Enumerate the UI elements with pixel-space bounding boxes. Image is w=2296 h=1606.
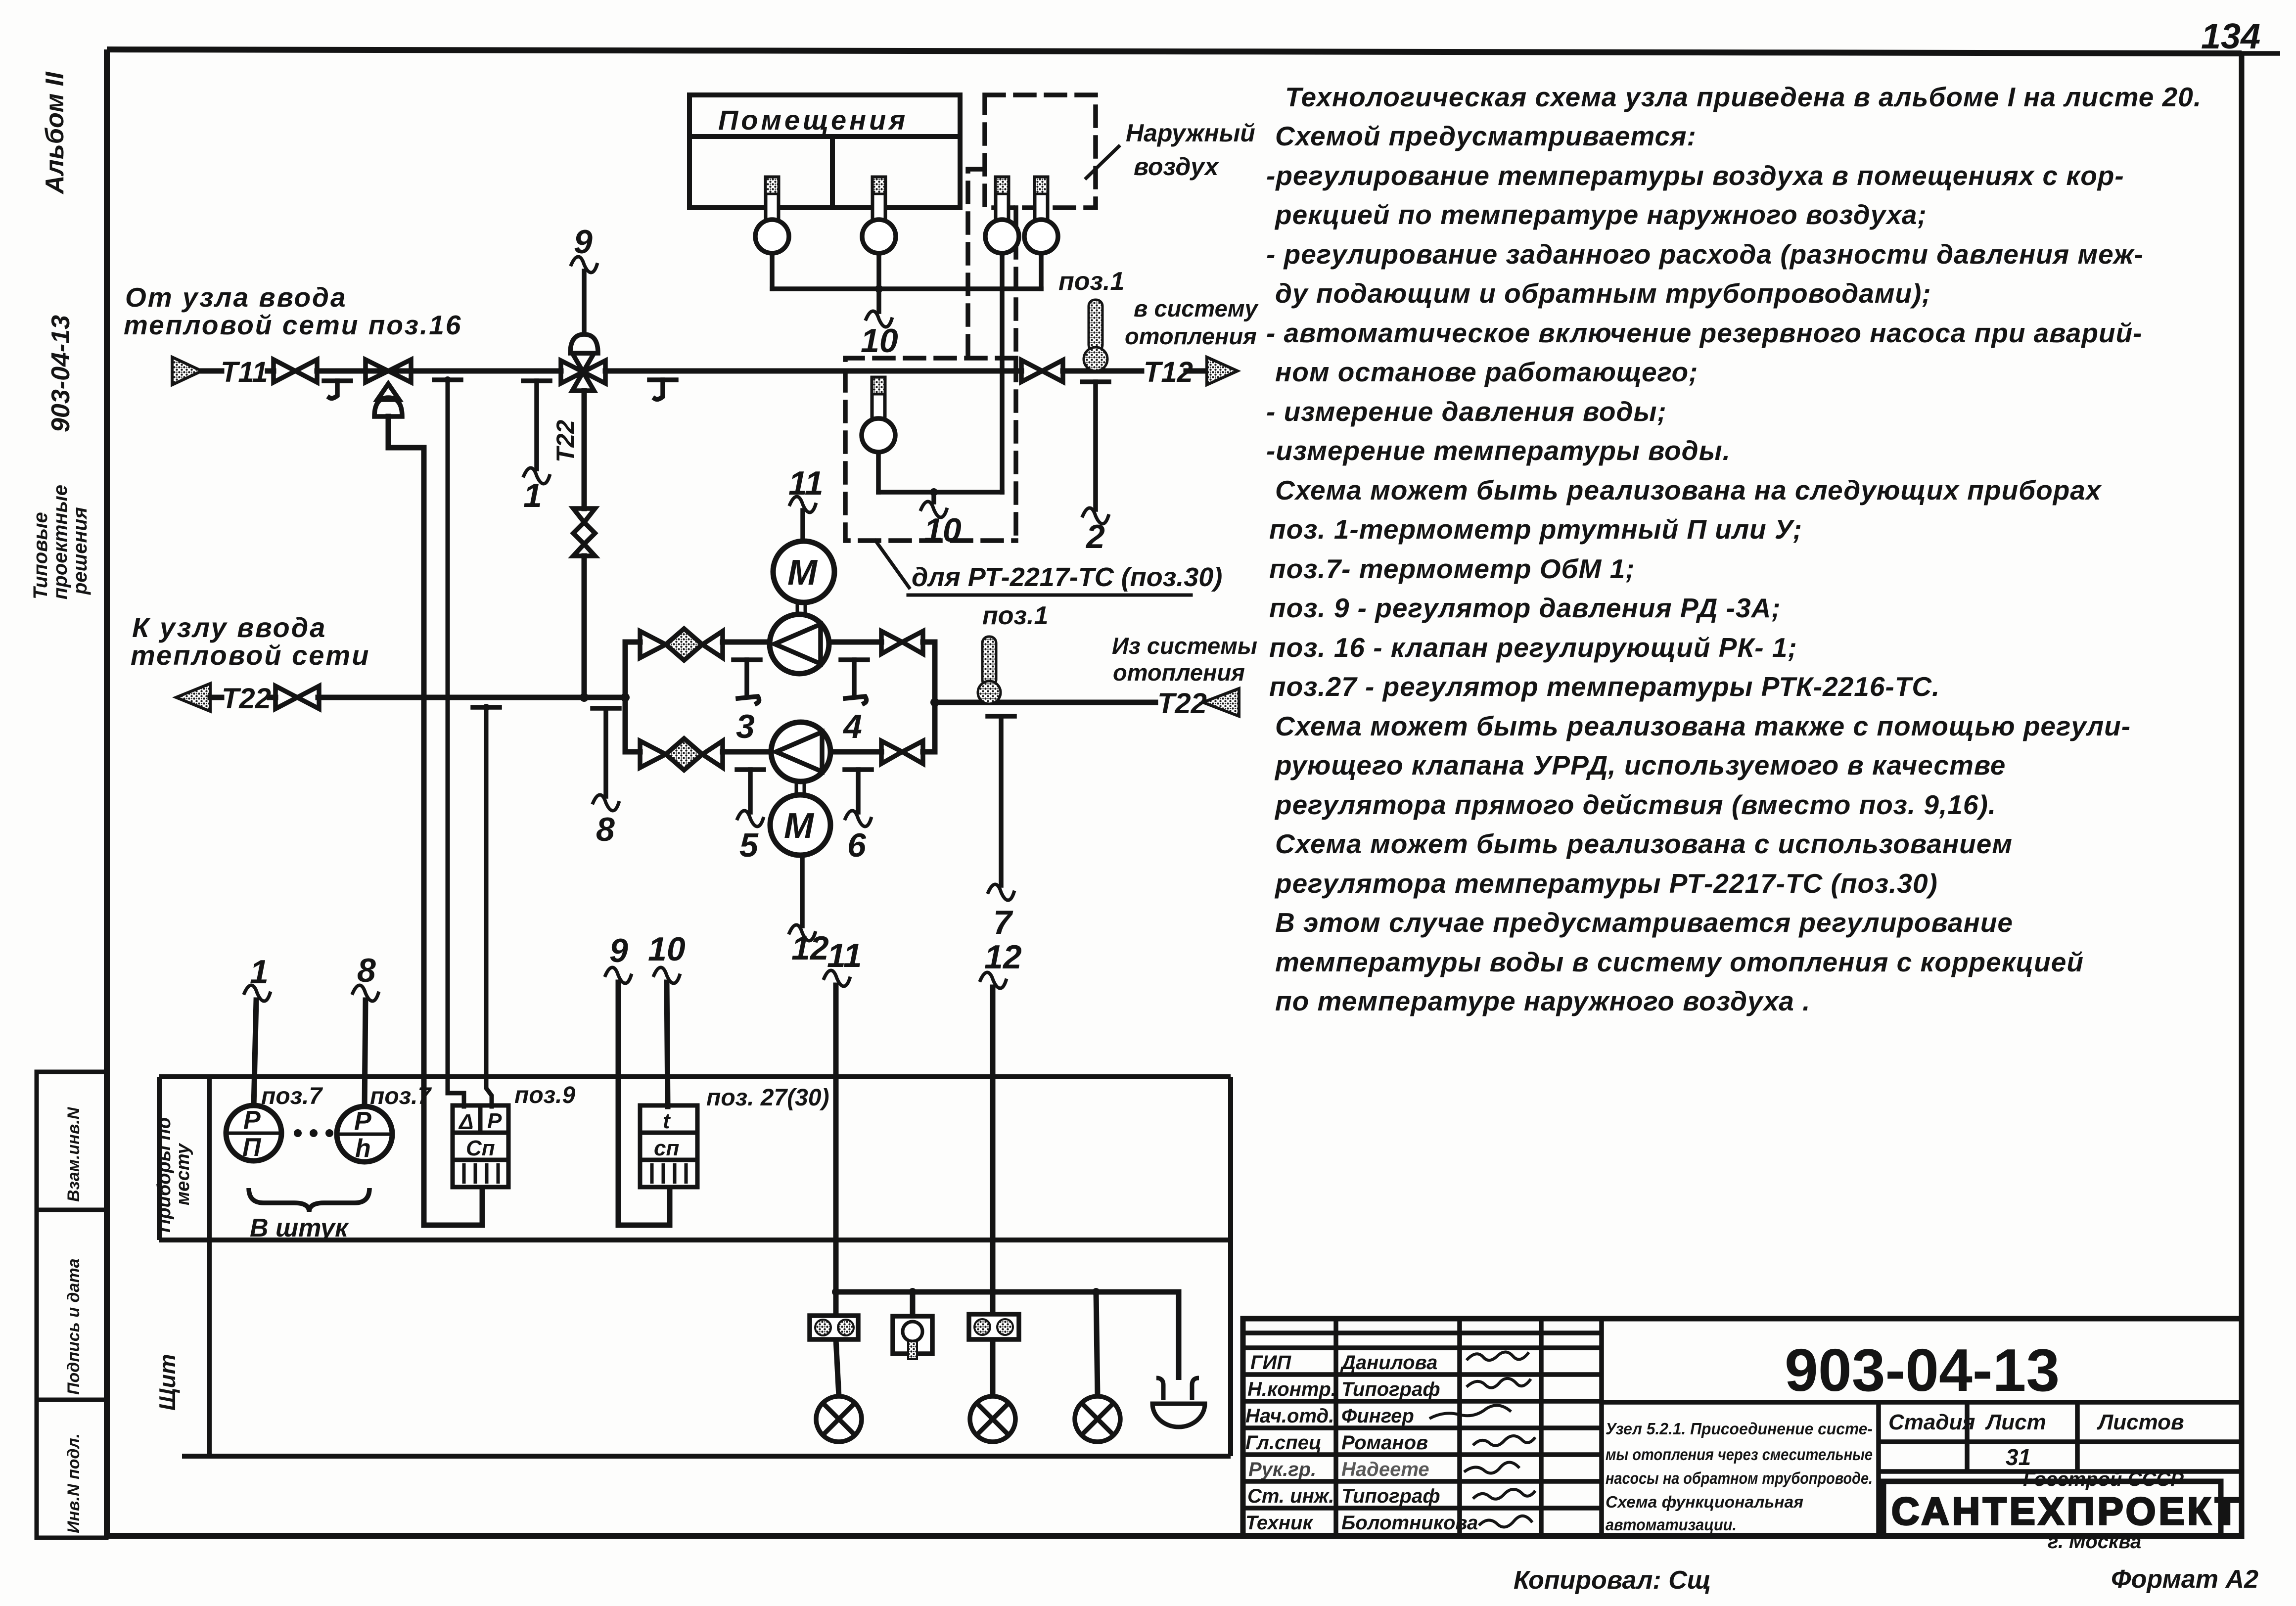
svg-text:Схема может быть реализована: Схема может быть реализована также с пом… bbox=[1275, 711, 2131, 741]
svg-text:отопления: отопления bbox=[1125, 323, 1257, 349]
svg-text:температуры воды в систему: температуры воды в систему отопления с к… bbox=[1275, 947, 2084, 977]
svg-text:4: 4 bbox=[842, 708, 862, 745]
svg-text:- измерение давления воды;: - измерение давления воды; bbox=[1266, 396, 1667, 427]
valve gate lower branch bbox=[881, 741, 923, 764]
svg-text:ном останове работающего;: ном останове работающего; bbox=[1275, 357, 1698, 387]
wire to lamp 11 bbox=[836, 1339, 839, 1396]
wire impulse 4 tap bbox=[841, 660, 868, 703]
svg-text:3: 3 bbox=[736, 708, 755, 745]
wire T11 main line bbox=[202, 368, 1207, 374]
wire impulse 11 from M1 bbox=[800, 510, 805, 541]
wire Т22 main left bbox=[210, 695, 625, 700]
svg-text:поз.27 - регулятор температ: поз.27 - регулятор температуры РТК-2216-… bbox=[1269, 671, 1940, 702]
wire upper branch bbox=[625, 640, 935, 645]
svg-text:Болотникова: Болотникова bbox=[1341, 1512, 1478, 1534]
svg-text:12: 12 bbox=[984, 938, 1022, 976]
svg-text:Р: Р bbox=[354, 1107, 371, 1136]
wire shaft M2-P2 bbox=[796, 781, 804, 795]
sensor thermometer РТ duct bbox=[862, 377, 895, 452]
wire impulse line 2 bbox=[1082, 382, 1109, 509]
socket symbol bbox=[1152, 1378, 1205, 1427]
svg-text:8: 8 bbox=[596, 811, 615, 848]
wire outdoor sensor down bbox=[878, 253, 1002, 502]
svg-text:Типограф: Типограф bbox=[1341, 1378, 1440, 1400]
staff rows bbox=[1245, 1352, 1478, 1534]
valve РК-1 cross regulating valve (поз.16) bbox=[561, 334, 605, 391]
svg-text:-регулирование температуры в: -регулирование температуры воздуха в пом… bbox=[1266, 160, 2124, 191]
svg-text:Н.контр.: Н.контр. bbox=[1247, 1378, 1336, 1400]
svg-text:Гл.спец: Гл.спец bbox=[1245, 1432, 1322, 1454]
wire impulse 5 tap bbox=[737, 770, 764, 812]
label Приборы по месту bbox=[154, 1117, 193, 1233]
sensor thermometer 4 outdoor bbox=[1024, 177, 1058, 253]
svg-text:- регулирование заданного ра: - регулирование заданного расхода (разно… bbox=[1266, 239, 2144, 270]
svg-text:От узла ввода: От узла ввода bbox=[125, 282, 347, 313]
svg-text:г. Москва: г. Москва bbox=[2048, 1531, 2141, 1553]
svg-text:Узел 5.2.1. Присоединение сист: Узел 5.2.1. Присоединение систе- bbox=[1606, 1420, 1873, 1438]
valve 3-way regulating with actuator (поз.9 valve) bbox=[366, 360, 411, 416]
valve gate T11 bbox=[274, 360, 317, 382]
wire to lamp 3 bbox=[1096, 1292, 1098, 1396]
org box bbox=[1883, 1481, 2221, 1536]
svg-text:6: 6 bbox=[847, 826, 867, 864]
wire impulse line 1 bbox=[523, 381, 550, 469]
svg-text:поз.1: поз.1 bbox=[982, 601, 1048, 630]
svg-text:Т12: Т12 bbox=[1144, 356, 1193, 388]
motor M2 bbox=[770, 795, 830, 855]
svg-text:Сп: Сп bbox=[466, 1136, 495, 1160]
svg-text:10: 10 bbox=[648, 930, 686, 968]
svg-text:поз. 27(30): поз. 27(30) bbox=[706, 1085, 829, 1111]
svg-text:t: t bbox=[663, 1109, 671, 1133]
node T12 outlet arrow bbox=[1207, 357, 1238, 385]
svg-text:Схема может быть реализован: Схема может быть реализована на следующи… bbox=[1275, 475, 2102, 505]
svg-text:К узлу ввода: К узлу ввода bbox=[132, 612, 326, 643]
svg-text:Инв.N подл.: Инв.N подл. bbox=[64, 1433, 83, 1533]
svg-text:Δ: Δ bbox=[458, 1110, 474, 1134]
svg-text:Госстрой СССР: Госстрой СССР bbox=[2023, 1468, 2184, 1490]
valve strainer combo lower bbox=[640, 738, 723, 770]
svg-text:- автоматическое включение р: - автоматическое включение резервного на… bbox=[1266, 318, 2143, 348]
svg-text:воздух: воздух bbox=[1134, 153, 1220, 181]
sensor thermometer 2 in Помещения bbox=[862, 177, 896, 253]
node T11 inlet arrow bbox=[172, 357, 202, 385]
node T22 inlet arrow bbox=[176, 684, 210, 711]
wire impulse 7 tap bbox=[988, 716, 1014, 885]
title block frame bbox=[1243, 1319, 2242, 1536]
wire riser РК-1 to Т22 bbox=[582, 391, 587, 697]
svg-text:Т11: Т11 bbox=[221, 356, 268, 388]
svg-text:Формат А2: Формат А2 bbox=[2111, 1565, 2258, 1594]
svg-text:Романов: Романов bbox=[1341, 1432, 1428, 1454]
instrument manometer поз.7 second bbox=[337, 1106, 392, 1163]
lamp 11 bbox=[816, 1396, 862, 1442]
svg-text:поз.7- термометр ОбМ 1;: поз.7- термометр ОбМ 1; bbox=[1269, 553, 1635, 584]
svg-text:Помещения: Помещения bbox=[718, 104, 908, 136]
svg-text:Типограф: Типограф bbox=[1341, 1485, 1440, 1507]
svg-text:поз.7: поз.7 bbox=[261, 1083, 323, 1109]
svg-text:поз. 16 - клапан регулирующи: поз. 16 - клапан регулирующий РК- 1; bbox=[1269, 632, 1797, 663]
box Помещения bbox=[689, 95, 960, 208]
svg-text:134: 134 bbox=[2201, 17, 2260, 56]
node tap on T11 to pos9 bbox=[434, 380, 464, 1106]
svg-text:Технологическая схема узла при: Технологическая схема узла приведена в а… bbox=[1285, 82, 2202, 112]
svg-text:рекцией по температуре наруж: рекцией по температуре наружного воздуха… bbox=[1274, 199, 1927, 230]
connector box 12 bbox=[969, 1314, 1019, 1339]
svg-text:мы отопления через смесительны: мы отопления через смесительные bbox=[1606, 1445, 1873, 1464]
instrument manometer поз.7 first bbox=[226, 1105, 281, 1162]
svg-text:регулятора прямого действия: регулятора прямого действия (вместо поз.… bbox=[1274, 789, 1996, 820]
instrument regulator поз.9 bbox=[453, 1105, 508, 1187]
connector box 11 bbox=[810, 1316, 858, 1339]
LEFT MARGIN ROTATED TEXT bbox=[30, 71, 91, 599]
LEFT MARGIN CELL COLUMN bbox=[37, 1072, 106, 1538]
svg-text:10: 10 bbox=[861, 322, 898, 360]
wire pump manifold right bbox=[932, 642, 938, 752]
svg-text:Надеете: Надеете bbox=[1341, 1459, 1429, 1480]
svg-text:Т22: Т22 bbox=[222, 683, 271, 715]
svg-text:насосы на обратном трубопровод: насосы на обратном трубопроводе. bbox=[1606, 1469, 1873, 1487]
svg-text:месту: месту bbox=[173, 1143, 193, 1205]
svg-text:Наружный: Наружный bbox=[1126, 119, 1255, 147]
svg-text:Листов: Листов bbox=[2097, 1410, 2184, 1434]
svg-text:Типовые: Типовые bbox=[30, 512, 51, 599]
svg-text:поз.7: поз.7 bbox=[370, 1083, 432, 1109]
thermometer поз.1 on T22 out bbox=[978, 637, 1001, 704]
svg-text:автоматизации.: автоматизации. bbox=[1606, 1515, 1737, 1534]
svg-text:Подпись и дата: Подпись и дата bbox=[64, 1258, 83, 1395]
pump P1 bbox=[770, 614, 829, 674]
svg-text:2: 2 bbox=[1085, 518, 1105, 555]
wire impulse line 9 to РК-1 bbox=[582, 271, 587, 334]
thermometer поз.1 on T12 bbox=[1084, 300, 1107, 371]
svg-text:тепловой сети: тепловой сети bbox=[131, 640, 370, 671]
instrument regulator поз.27(30) bbox=[640, 1105, 697, 1187]
svg-text:Фингер: Фингер bbox=[1341, 1405, 1414, 1427]
svg-text:Нач.отд.: Нач.отд. bbox=[1245, 1405, 1334, 1427]
svg-text:рующего клапана УРРД, исполь: рующего клапана УРРД, используемого в ка… bbox=[1274, 750, 2006, 780]
svg-text:для РТ-2217-ТС (поз.30): для РТ-2217-ТС (поз.30) bbox=[912, 562, 1222, 592]
wire leader to dashed box bbox=[1086, 146, 1119, 178]
svg-text:поз. 9 - регулятор давления: поз. 9 - регулятор давления РД -3А; bbox=[1269, 593, 1781, 623]
wire impulse 12 from M2 bbox=[800, 855, 805, 926]
brace В ШТУК bbox=[249, 1188, 369, 1212]
node junction dots bbox=[444, 285, 1100, 1296]
svg-text:проектные: проектные bbox=[49, 485, 71, 599]
instrument table borders bbox=[159, 1077, 1231, 1456]
valve strainer combo upper bbox=[640, 629, 723, 660]
svg-text:9: 9 bbox=[609, 932, 628, 969]
switch button bbox=[893, 1292, 932, 1359]
svg-text:ду подающим и обратным тру: ду подающим и обратным трубопроводами); bbox=[1275, 278, 1931, 309]
svg-text:Техник: Техник bbox=[1245, 1512, 1313, 1534]
svg-text:Приборы по: Приборы по bbox=[154, 1117, 175, 1233]
svg-text:сп: сп bbox=[654, 1136, 679, 1160]
svg-text:регулятора температуры РТ-22: регулятора температуры РТ-2217-ТС (поз.3… bbox=[1274, 868, 1938, 899]
wire to lamp 12 bbox=[990, 1339, 996, 1396]
svg-text:10: 10 bbox=[924, 511, 962, 549]
wire leader РТ-2217 label bbox=[875, 541, 909, 588]
valve check pair on riser bbox=[573, 508, 595, 556]
valve gate on T12 bbox=[1021, 360, 1063, 382]
svg-text:9: 9 bbox=[574, 223, 593, 261]
sensor thermometer 1 in Помещения bbox=[755, 177, 789, 253]
svg-text:7: 7 bbox=[993, 904, 1013, 941]
svg-text:-измерение температуры воды.: -измерение температуры воды. bbox=[1266, 435, 1731, 466]
svg-text:Рук.гр.: Рук.гр. bbox=[1248, 1459, 1316, 1480]
valve gate Т22 bbox=[276, 686, 319, 709]
svg-text:Копировал: Сщ: Копировал: Сщ bbox=[1514, 1566, 1711, 1595]
svg-text:САНТЕХПРОЕКТ: САНТЕХПРОЕКТ bbox=[1891, 1489, 2242, 1533]
svg-text:решения: решения bbox=[69, 507, 91, 595]
svg-text:12: 12 bbox=[791, 929, 829, 967]
wire shaft M1-P1 bbox=[797, 602, 805, 614]
svg-text:Ст. инж.: Ст. инж. bbox=[1247, 1485, 1334, 1507]
svg-text:поз.9: поз.9 bbox=[514, 1082, 575, 1108]
svg-text:М: М bbox=[784, 806, 815, 846]
svg-text:Взам.инв.N: Взам.инв.N bbox=[64, 1106, 83, 1202]
wire lower branch bbox=[625, 749, 935, 755]
node Т22 outlet arrow bbox=[1203, 688, 1239, 716]
node dots bbox=[294, 1129, 333, 1137]
wire impulse 6 tap bbox=[845, 770, 872, 812]
wire sensor bus bbox=[772, 253, 1041, 312]
description bbox=[1606, 1420, 1873, 1534]
node tap T on T11 bbox=[324, 381, 351, 398]
svg-text:Схемой предусматривается:: Схемой предусматривается: bbox=[1275, 121, 1697, 151]
svg-text:Р: Р bbox=[243, 1106, 261, 1135]
sensor thermometer 3 outdoor bbox=[985, 177, 1019, 253]
svg-text:Альбом II: Альбом II bbox=[41, 71, 69, 195]
signatures bbox=[1429, 1352, 1535, 1527]
svg-text:тепловой сети поз.16: тепловой сети поз.16 bbox=[124, 310, 462, 340]
svg-text:в систему: в систему bbox=[1134, 295, 1259, 321]
svg-text:903-04-13: 903-04-13 bbox=[1785, 1336, 2060, 1404]
svg-text:ГИП: ГИП bbox=[1250, 1352, 1291, 1374]
motor M1 bbox=[773, 541, 834, 602]
svg-text:Схема может быть реализован: Схема может быть реализована с использов… bbox=[1275, 828, 2013, 859]
wire impulse line 8 bbox=[593, 708, 619, 796]
wire panel bus bbox=[836, 1292, 1179, 1380]
svg-text:отопления: отопления bbox=[1113, 659, 1245, 686]
lamp third bbox=[1075, 1396, 1120, 1442]
svg-text:поз.1: поз.1 bbox=[1058, 267, 1124, 296]
wire impulse 3 tap bbox=[734, 660, 760, 703]
svg-text:Т22: Т22 bbox=[551, 420, 579, 462]
svg-text:903-04-13: 903-04-13 bbox=[46, 315, 75, 432]
svg-text:Р: Р bbox=[487, 1109, 502, 1133]
svg-text:по температуре наружного в: по температуре наружного воздуха . bbox=[1275, 986, 1810, 1016]
svg-text:М: М bbox=[787, 553, 818, 593]
svg-text:11: 11 bbox=[788, 464, 824, 502]
svg-text:Схема функциональная: Схема функциональная bbox=[1606, 1493, 1803, 1511]
svg-text:П: П bbox=[242, 1133, 262, 1162]
wire pump manifold left bbox=[623, 642, 628, 752]
svg-text:Из системы: Из системы bbox=[1112, 633, 1257, 659]
svg-text:Данилова: Данилова bbox=[1340, 1352, 1437, 1374]
svg-text:Щит: Щит bbox=[154, 1354, 180, 1411]
svg-text:В штук: В штук bbox=[250, 1214, 349, 1242]
wire actuator to panel line bbox=[388, 416, 482, 1225]
svg-text:31: 31 bbox=[2006, 1444, 2031, 1470]
svg-text:Т22: Т22 bbox=[1157, 688, 1207, 720]
svg-text:Лист: Лист bbox=[1985, 1410, 2046, 1434]
box dashed Наружный воздух zone bbox=[845, 95, 1096, 541]
pump P2 bbox=[771, 722, 830, 781]
svg-text:1: 1 bbox=[523, 477, 542, 514]
lamp 12 bbox=[970, 1396, 1015, 1442]
node tap T on T11 right bbox=[649, 380, 676, 399]
svg-text:5: 5 bbox=[739, 826, 759, 864]
svg-text:В этом случае предусматривае: В этом случае предусматривается регулиро… bbox=[1275, 907, 2013, 938]
svg-text:поз. 1-термометр ртутный П: поз. 1-термометр ртутный П или У; bbox=[1269, 514, 1802, 545]
svg-text:h: h bbox=[355, 1134, 371, 1163]
wire Т22 outlet bbox=[935, 700, 1155, 705]
svg-text:Стадия: Стадия bbox=[1888, 1410, 1975, 1434]
svg-text:11: 11 bbox=[827, 937, 862, 974]
node tap Т22 to pos9 bbox=[473, 707, 500, 1106]
valve gate upper branch bbox=[881, 631, 923, 654]
